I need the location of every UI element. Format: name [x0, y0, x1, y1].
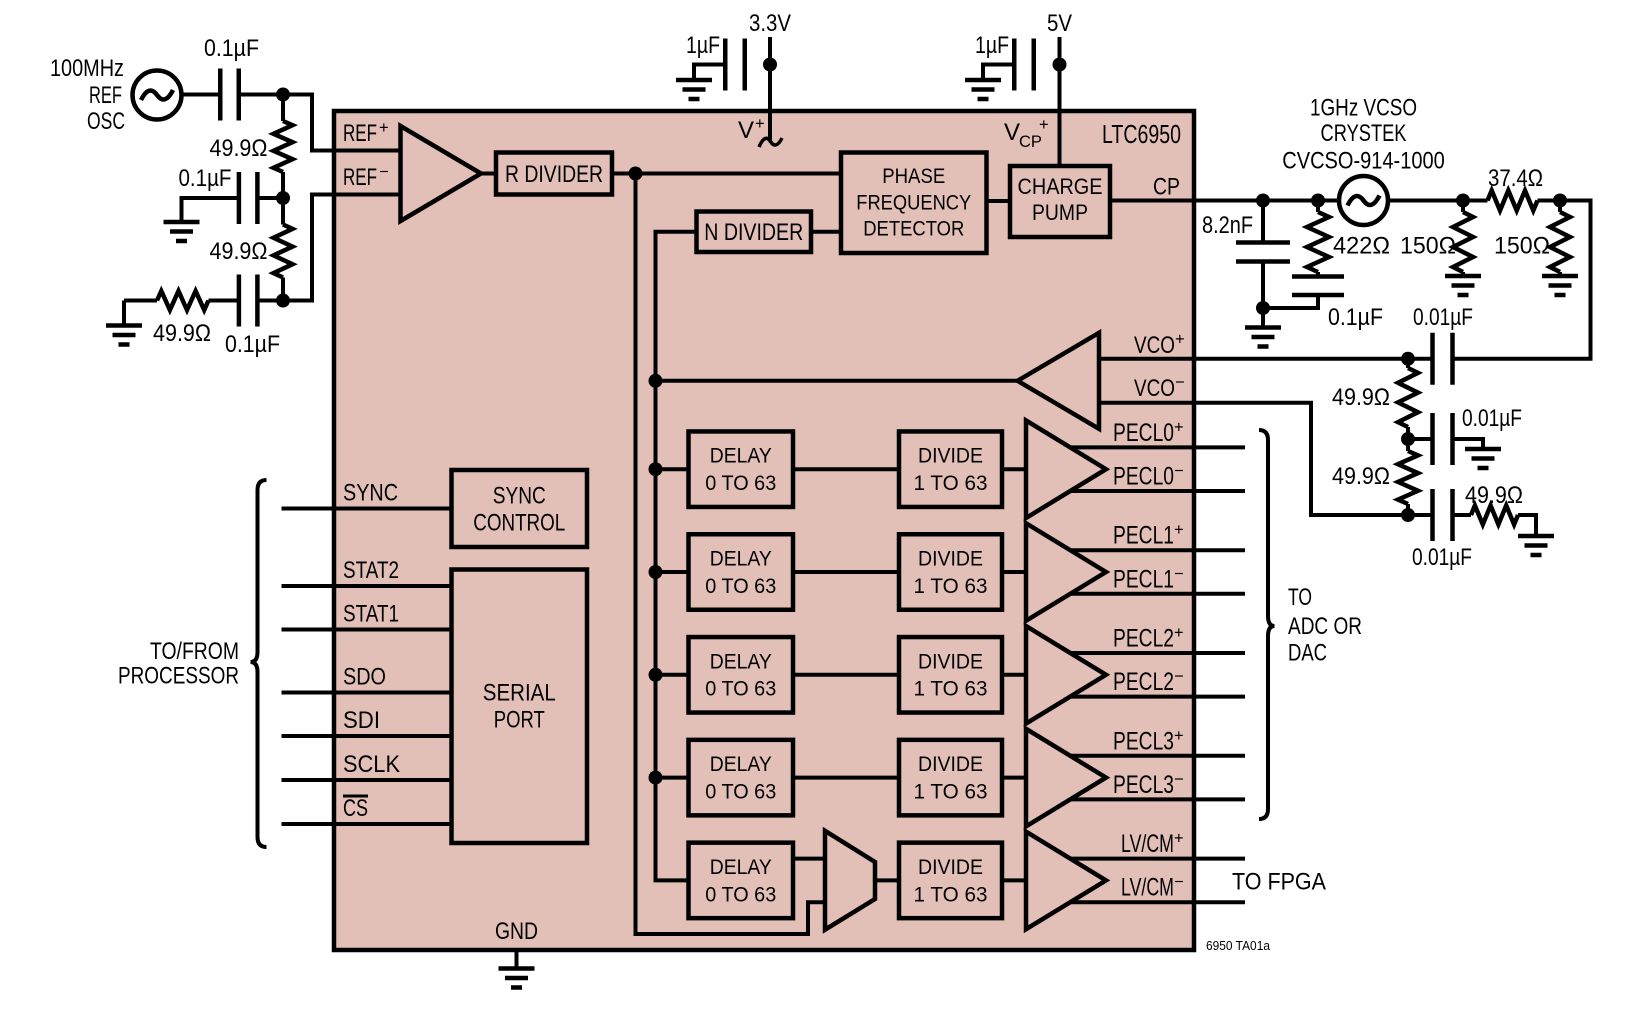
node delay feed junction row 0 [649, 462, 663, 476]
capacitor C2 0.1uF (REF- bypass to ground) [239, 172, 258, 224]
wire rail to delay row 0 [656, 467, 689, 471]
svg-text:SDI: SDI [343, 707, 380, 734]
resistor R7 150 ohm [1558, 201, 1562, 213]
wire output line LV/CM- [1071, 900, 1246, 904]
svg-text:CONTROL: CONTROL [473, 510, 565, 537]
svg-text:6950 TA01a: 6950 TA01a [1206, 939, 1270, 953]
buffer output driver PECL2 [1026, 626, 1106, 724]
svg-text:0.1µF: 0.1µF [225, 331, 280, 358]
resistor R4 422 ohm (loop filter) [1316, 201, 1320, 213]
IC block LTC6950 body [334, 111, 1194, 950]
svg-text:N DIVIDER: N DIVIDER [704, 219, 803, 246]
svg-text:DETECTOR: DETECTOR [863, 218, 964, 241]
delay block row 3 (DELAY 0 TO 63) [689, 740, 794, 816]
svg-text:1 TO 63: 1 TO 63 [914, 575, 988, 598]
SERIAL PORT block [452, 570, 588, 844]
svg-text:DELAY: DELAY [710, 856, 772, 879]
divide block row 0 (DIVIDE 1 TO 63) [899, 431, 1002, 507]
oscillator 1GHz VCSO CRYSTEK CVCSO-914-1000 [1339, 176, 1388, 225]
wire charge pump to CP pin and loop filter [1110, 199, 1339, 203]
svg-text:1µF: 1µF [975, 32, 1009, 59]
wire C4 to ground [694, 65, 725, 81]
svg-text:R DIVIDER: R DIVIDER [505, 161, 603, 188]
svg-text:ADC OR: ADC OR [1288, 613, 1362, 640]
wire R6 to node [1453, 201, 1591, 359]
wire R divider to PFD [612, 172, 841, 176]
divide block row 2 (DIVIDE 1 TO 63) [899, 637, 1002, 713]
delay block row 0 (DELAY 0 TO 63) [689, 431, 794, 507]
wire delay to divide row 3 [793, 776, 899, 780]
resistor R1 49.9 ohm (node A to node B) [281, 95, 285, 122]
wire output line PECL1- [1071, 592, 1246, 596]
capacitor C3 0.1uF (node C coupling) [239, 275, 258, 327]
svg-text:DIVIDE: DIVIDE [918, 856, 983, 879]
svg-text:DIVIDE: DIVIDE [918, 753, 983, 776]
brace TO ADC OR DAC [1259, 430, 1275, 819]
resistor R10 49.9 ohm [1453, 513, 1472, 517]
svg-text:LTC6950: LTC6950 [1102, 119, 1181, 149]
svg-text:PROCESSOR: PROCESSOR [118, 663, 239, 690]
wire rail to delay row 1 [656, 570, 689, 574]
PHASE FREQUENCY DETECTOR block [841, 153, 987, 254]
svg-text:0 TO 63: 0 TO 63 [705, 575, 776, 598]
svg-text:1 TO 63: 1 TO 63 [914, 781, 988, 804]
svg-text:SDO: SDO [343, 664, 386, 691]
svg-text:49.9Ω: 49.9Ω [153, 320, 211, 347]
wire rail to delay row 3 [656, 776, 689, 780]
svg-text:STAT2: STAT2 [343, 557, 399, 584]
node output junction 2 [1553, 194, 1567, 208]
buffer output driver PECL0 [1026, 420, 1106, 518]
svg-text:+: + [1175, 331, 1185, 349]
svg-text:STAT1: STAT1 [343, 601, 399, 628]
overline for CS [343, 795, 368, 798]
svg-text:1 TO 63: 1 TO 63 [914, 472, 988, 495]
wire delay to divide row 2 [793, 673, 899, 677]
wire VCO buffer output to divider rail [656, 379, 1018, 383]
svg-text:PECL2: PECL2 [1113, 668, 1174, 696]
wire output line PECL2- [1071, 695, 1246, 699]
SYNC CONTROL block [452, 470, 588, 547]
svg-text:VCO: VCO [1134, 375, 1175, 402]
wire pin SDI [282, 734, 452, 738]
svg-text:SYNC: SYNC [343, 480, 398, 507]
buffer output driver LV/CM [1026, 832, 1106, 930]
resistor R5 150 ohm [1461, 201, 1465, 213]
svg-text:−: − [1174, 770, 1184, 788]
delay block row 4 (DELAY 0 TO 63) [689, 843, 794, 919]
capacitor C9 0.01uF (termination) [1408, 437, 1433, 441]
svg-text:150Ω: 150Ω [1400, 233, 1456, 260]
svg-text:TO: TO [1288, 584, 1312, 611]
V+ internal rail squiggle [759, 138, 782, 147]
svg-text:DELAY: DELAY [710, 650, 772, 673]
svg-text:49.9Ω: 49.9Ω [1332, 463, 1390, 490]
svg-text:−: − [1174, 462, 1184, 480]
node supply junction 5V [1053, 58, 1067, 72]
svg-text:−: − [1174, 668, 1184, 686]
divide block row 1 (DIVIDE 1 TO 63) [899, 534, 1002, 610]
node VCO rail junction [649, 374, 663, 388]
svg-text:PECL2: PECL2 [1113, 625, 1174, 653]
svg-text:GND: GND [495, 918, 538, 945]
svg-text:1 TO 63: 1 TO 63 [914, 678, 988, 701]
svg-text:5V: 5V [1047, 10, 1072, 37]
svg-text:0.01µF: 0.01µF [1462, 405, 1522, 432]
svg-text:8.2nF: 8.2nF [1202, 212, 1253, 239]
svg-text:PECL0: PECL0 [1113, 419, 1174, 447]
capacitor C6 8.2nF (loop filter) [1261, 201, 1265, 243]
oscillator 100MHz REF OSC source symbol [133, 71, 182, 120]
svg-text:0.1µF: 0.1µF [179, 165, 232, 192]
wire C2 to ground [182, 198, 239, 222]
node delay feed junction row 2 [649, 668, 663, 682]
wire output line PECL2+ [1071, 651, 1246, 655]
CHARGE PUMP block [1010, 166, 1110, 237]
node supply junction 3.3V [763, 58, 777, 72]
wire buffer to R divider [481, 172, 496, 176]
wire pin SCLK [282, 778, 452, 782]
svg-text:REF: REF [343, 120, 377, 147]
wire rail to delay row 2 [656, 673, 689, 677]
ground (loop filter) [1245, 328, 1281, 347]
wire divide to output buffer row 2 [1002, 673, 1026, 677]
svg-text:REF: REF [89, 82, 122, 109]
svg-text:CRYSTEK: CRYSTEK [1321, 120, 1407, 147]
svg-text:0.01µF: 0.01µF [1412, 544, 1472, 571]
svg-text:−: − [1175, 374, 1185, 392]
N DIVIDER block [697, 212, 812, 253]
wire C2 to node B [257, 196, 283, 200]
svg-text:PECL1: PECL1 [1113, 565, 1174, 593]
resistor R6 37.4 ohm [1488, 191, 1538, 211]
svg-text:37.4Ω: 37.4Ω [1488, 165, 1543, 192]
svg-text:+: + [1174, 727, 1184, 745]
ground (GND pin) [499, 969, 535, 988]
svg-text:CP: CP [1153, 174, 1180, 201]
svg-text:LV/CM: LV/CM [1121, 874, 1174, 902]
ground (C9) [1465, 449, 1501, 468]
wire VCO- pin line [1099, 403, 1433, 515]
svg-text:OSC: OSC [87, 108, 125, 135]
resistor R3 49.9 ohm (to ground, horizontal) [124, 299, 157, 303]
svg-text:0.1µF: 0.1µF [204, 35, 259, 62]
svg-text:0 TO 63: 0 TO 63 [705, 883, 776, 906]
node delay feed junction row 1 [649, 565, 663, 579]
wire to ground (loop filter) [1261, 308, 1265, 328]
svg-text:PUMP: PUMP [1032, 200, 1088, 225]
svg-text:+: + [379, 119, 389, 137]
svg-text:0 TO 63: 0 TO 63 [705, 678, 776, 701]
buffer U1 reference input amp [401, 126, 482, 221]
wire pin STAT1 [282, 628, 452, 632]
svg-text:1µF: 1µF [686, 32, 720, 59]
capacitor C5 1uF (VCP+ bypass) [1014, 39, 1034, 91]
wire divide to output buffer row 0 [1002, 467, 1026, 471]
svg-text:SCLK: SCLK [343, 751, 400, 778]
wire C1 to node A [239, 93, 283, 97]
svg-text:REF: REF [343, 164, 377, 191]
svg-text:SYNC: SYNC [493, 482, 546, 509]
wire node A to REF+ pin [283, 95, 401, 151]
ground (R10) [1518, 536, 1554, 555]
wire pin SDO [282, 691, 452, 695]
wire VCO+ pin line [1099, 357, 1433, 361]
capacitor C7 0.1uF (loop filter) [1316, 272, 1320, 277]
svg-text:V: V [1004, 119, 1020, 146]
wire N divider to PFD [811, 230, 841, 234]
node VCO termination mid junction [1401, 432, 1415, 446]
buffer U2 VCO input amp [1018, 333, 1100, 429]
svg-text:150Ω: 150Ω [1494, 233, 1550, 260]
ground (R3) [122, 301, 126, 326]
capacitor C4 1uF (V+ bypass) [725, 39, 745, 91]
svg-text:−: − [1174, 565, 1184, 583]
svg-text:−: − [379, 163, 389, 181]
svg-text:DELAY: DELAY [710, 445, 772, 468]
node delay feed junction row 3 [649, 771, 663, 785]
wire osc to C1 [182, 93, 221, 97]
svg-text:422Ω: 422Ω [1333, 233, 1390, 260]
wire output line LV/CM+ [1071, 857, 1246, 861]
wire VCSO to output network [1388, 199, 1488, 203]
wire C3 to node C [257, 299, 283, 303]
svg-text:49.9Ω: 49.9Ω [1465, 482, 1523, 509]
node A junction (to REF+) [276, 88, 290, 102]
ground (C4) [676, 80, 712, 99]
svg-text:0 TO 63: 0 TO 63 [705, 472, 776, 495]
wire output line PECL3+ [1071, 754, 1246, 758]
svg-text:CS: CS [343, 795, 368, 822]
svg-text:−: − [1174, 873, 1184, 891]
svg-text:DELAY: DELAY [710, 753, 772, 776]
resistor R8 49.9 ohm [1406, 359, 1410, 368]
svg-text:V: V [738, 117, 754, 144]
svg-text:CVCSO-914-1000: CVCSO-914-1000 [1282, 148, 1445, 175]
svg-text:DELAY: DELAY [710, 548, 772, 571]
svg-text:CP: CP [1019, 133, 1042, 151]
svg-text:DIVIDE: DIVIDE [918, 548, 983, 571]
svg-text:0 TO 63: 0 TO 63 [705, 781, 776, 804]
svg-text:+: + [1174, 830, 1184, 848]
resistor R2 49.9 ohm (node B to node C) [281, 198, 285, 225]
svg-text:0.1µF: 0.1µF [1328, 304, 1383, 331]
ground (C5) [965, 80, 1001, 99]
svg-text:DIVIDE: DIVIDE [918, 445, 983, 468]
svg-text:CHARGE: CHARGE [1018, 174, 1103, 199]
ground (R5) [1445, 276, 1481, 295]
R DIVIDER block [496, 153, 612, 195]
svg-text:+: + [1039, 116, 1049, 134]
svg-text:1GHz VCSO: 1GHz VCSO [1310, 95, 1417, 122]
wire 3.3V to V+ pin [768, 37, 772, 141]
resistor R9 49.9 ohm [1406, 439, 1410, 451]
wire N divider input from VCO rail [656, 232, 697, 381]
wire output line PECL0+ [1071, 445, 1246, 449]
wire GND pin [515, 950, 519, 969]
svg-text:49.9Ω: 49.9Ω [210, 135, 268, 162]
wire delay to divide row 0 [793, 467, 899, 471]
wire output line PECL0- [1071, 489, 1246, 493]
svg-text:3.3V: 3.3V [749, 10, 791, 37]
svg-text:DIVIDE: DIVIDE [918, 650, 983, 673]
svg-text:PECL3: PECL3 [1113, 727, 1174, 755]
wire mux to divide row 4 [875, 878, 899, 882]
svg-text:49.9Ω: 49.9Ω [210, 238, 268, 265]
capacitor C8 0.01uF (VCO+ coupling) [1433, 333, 1453, 385]
node R divider output junction [629, 167, 643, 181]
svg-text:PECL3: PECL3 [1113, 771, 1174, 799]
node C junction [276, 294, 290, 308]
wire divide to output buffer row 3 [1002, 776, 1026, 780]
svg-text:SERIAL: SERIAL [483, 680, 556, 707]
divide block row 3 (DIVIDE 1 TO 63) [899, 740, 1002, 816]
svg-text:PECL1: PECL1 [1113, 522, 1174, 550]
wire PFD to charge pump [987, 199, 1011, 203]
svg-text:+: + [1174, 521, 1184, 539]
node CP filter junction 2 [1311, 194, 1325, 208]
node CP filter junction 1 [1256, 194, 1270, 208]
wire divide to output buffer row 1 [1002, 570, 1026, 574]
node VCO+ junction [1401, 352, 1415, 366]
wire delay to divide row 1 [793, 570, 899, 574]
wire R divider rail down to LV/CM mux [636, 174, 826, 935]
node B junction [276, 191, 290, 205]
wire delay row 4 to mux input [793, 857, 825, 861]
wire 5V to charge pump VCP+ [1058, 37, 1062, 166]
svg-text:FREQUENCY: FREQUENCY [856, 191, 971, 214]
svg-text:+: + [1174, 418, 1184, 436]
svg-text:DAC: DAC [1288, 640, 1327, 667]
mux M1 (LV/CM source select) [825, 831, 875, 930]
divide block row 4 (DIVIDE 1 TO 63) [899, 843, 1002, 919]
svg-text:49.9Ω: 49.9Ω [1332, 384, 1390, 411]
node VCO- junction [1401, 508, 1415, 522]
wire divide to output buffer row 4 [1002, 878, 1026, 882]
wire output line PECL3- [1071, 797, 1246, 801]
svg-text:LV/CM: LV/CM [1121, 830, 1174, 858]
svg-text:TO/FROM: TO/FROM [150, 638, 239, 665]
svg-text:0.01µF: 0.01µF [1413, 304, 1473, 331]
wire pin SYNC [282, 507, 452, 511]
ground (R7) [1542, 276, 1578, 295]
svg-text:+: + [755, 115, 765, 133]
delay block row 1 (DELAY 0 TO 63) [689, 534, 794, 610]
svg-text:VCO: VCO [1134, 332, 1175, 359]
wire VCO rail down to delay inputs [656, 381, 689, 881]
capacitor C10 0.01uF (VCO- termination) [1433, 489, 1453, 541]
svg-text:+: + [1174, 624, 1184, 642]
wire C5 to ground [983, 65, 1014, 81]
svg-text:TO FPGA: TO FPGA [1232, 869, 1326, 896]
delay block row 2 (DELAY 0 TO 63) [689, 637, 794, 713]
svg-text:1 TO 63: 1 TO 63 [914, 883, 988, 906]
capacitor C1 0.1uF (REF+ coupling) [220, 69, 239, 121]
buffer output driver PECL1 [1026, 523, 1106, 621]
wire pin CS [282, 822, 452, 826]
wire node C to REF- pin [283, 195, 401, 301]
wire output line PECL1+ [1071, 548, 1246, 552]
svg-text:PECL0: PECL0 [1113, 463, 1174, 491]
node loop filter ground junction [1256, 301, 1270, 315]
buffer output driver PECL3 [1026, 729, 1106, 827]
ground (C2) [164, 222, 200, 241]
svg-text:100MHz: 100MHz [50, 55, 124, 82]
wire pin STAT2 [282, 584, 452, 588]
node VCSO output junction [1456, 194, 1470, 208]
svg-text:PHASE: PHASE [882, 165, 945, 188]
svg-text:PORT: PORT [494, 707, 545, 734]
brace TO/FROM PROCESSOR [251, 480, 267, 847]
